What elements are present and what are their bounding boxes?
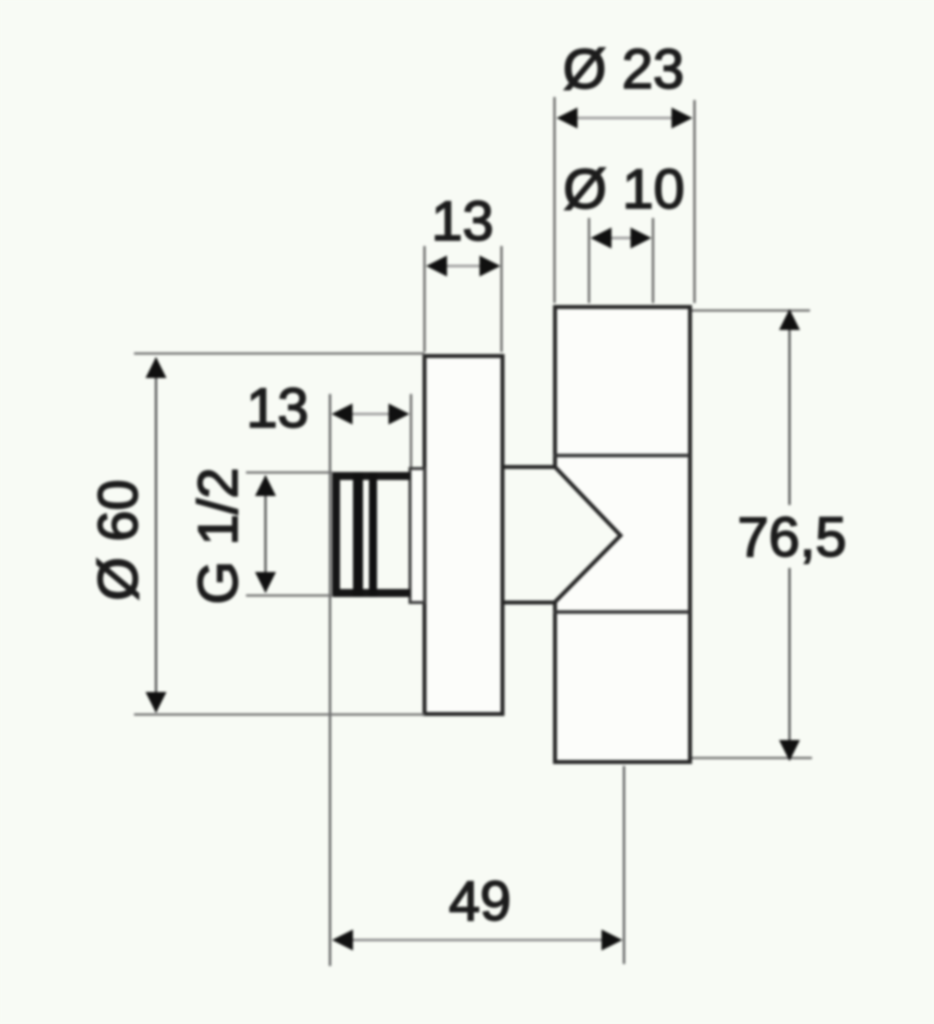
- svg-text:76,5: 76,5: [738, 505, 847, 568]
- flange (wall plate, side view): [425, 356, 503, 714]
- thread nipple: bottom edge: [332, 589, 410, 597]
- valve body outline (right T-shaped body with chevron seat notch): [555, 307, 690, 762]
- svg-text:Ø 60: Ø 60: [86, 479, 149, 600]
- dim Ø10: right extension line: [652, 218, 654, 303]
- dim Ø23: arrow right: [672, 108, 693, 129]
- dim G 1/2: arrow down: [255, 572, 276, 593]
- dim 76,5: dimension line upper segment: [788, 310, 790, 505]
- dim 13 top (flange width): left extension line: [423, 246, 425, 352]
- dim 76,5: arrow up: [779, 309, 800, 330]
- svg-text:G 1/2: G 1/2: [186, 468, 249, 605]
- dim 76,5 (body height): top extension line: [692, 309, 810, 311]
- dim Ø60: arrow down: [146, 692, 167, 713]
- thread bar 1: [353, 472, 363, 597]
- dim 76,5: dimension line lower segment: [788, 568, 790, 760]
- thread nipple: left end bar: [332, 472, 340, 597]
- svg-text:49: 49: [449, 869, 511, 932]
- dim 76,5: bottom extension line: [692, 757, 812, 759]
- dim Ø60: dimension line: [155, 358, 157, 712]
- dim G 1/2: dimension line: [264, 476, 266, 592]
- dim Ø10: left extension line: [588, 218, 590, 303]
- thread bar 2: [369, 472, 377, 597]
- svg-text:Ø 10: Ø 10: [563, 157, 684, 220]
- dim Ø60 (flange diameter): top extension line: [134, 352, 425, 354]
- dim G 1/2: bottom extension line: [246, 594, 333, 596]
- dim 49: arrow left: [332, 930, 353, 951]
- dim 13 top: arrow right: [480, 256, 501, 277]
- dim Ø23: arrow left: [557, 108, 578, 129]
- svg-text:13: 13: [431, 189, 493, 252]
- thread nipple G1/2: top edge: [332, 472, 410, 480]
- dim Ø23: left extension line: [553, 97, 555, 303]
- dim Ø10: dimension line: [608, 237, 634, 240]
- neck bottom line: [502, 601, 557, 605]
- dim 13 top: right extension line: [500, 246, 502, 352]
- dim 49: dimension line: [348, 939, 605, 942]
- dim G 1/2: arrow up: [255, 475, 276, 496]
- step ring between thread and flange: [410, 469, 425, 603]
- svg-text:13: 13: [246, 376, 308, 439]
- body interior line upper (bottom edge of top section): [553, 454, 690, 458]
- dim Ø60: bottom extension line: [134, 713, 425, 715]
- body interior line lower (top edge of bottom section): [553, 610, 690, 614]
- dim 49: arrow right: [602, 930, 623, 951]
- dim 76,5: arrow down: [779, 740, 800, 761]
- dim 13 top: dimension line: [445, 265, 482, 268]
- dim G 1/2 (thread): top extension line: [246, 471, 333, 473]
- dim Ø23: right extension line: [693, 100, 695, 303]
- dim 13 left: right extension line: [410, 394, 412, 467]
- dim 13 top: arrow left: [426, 256, 447, 277]
- neck top line (inlet pipe to flange): [502, 465, 557, 469]
- dim Ø10: arrow right: [631, 228, 652, 249]
- dim 13 left: dimension line: [350, 413, 392, 416]
- svg-text:Ø 23: Ø 23: [563, 37, 684, 100]
- dim Ø60: arrow up: [146, 357, 167, 378]
- dim Ø10: arrow left (pointing right at left line): [591, 228, 612, 249]
- dim 13 left: arrow right: [389, 404, 410, 425]
- dim Ø23: dimension line: [576, 117, 672, 120]
- dim 49 (depth): right extension line: [623, 766, 625, 964]
- dim 13 left (thread length): shared long left extension line: [329, 394, 331, 966]
- dim 13 left: arrow left: [332, 404, 353, 425]
